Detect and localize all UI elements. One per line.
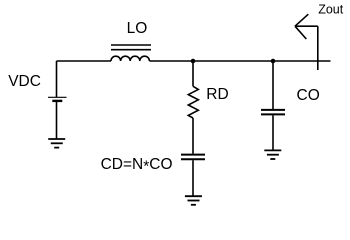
svg-text:LO: LO	[127, 20, 148, 37]
svg-text:Zout: Zout	[318, 2, 344, 16]
svg-text:CD=N*CO: CD=N*CO	[101, 156, 173, 176]
svg-text:VDC: VDC	[8, 73, 41, 90]
svg-text:RD: RD	[206, 86, 228, 103]
svg-text:CO: CO	[297, 87, 320, 104]
